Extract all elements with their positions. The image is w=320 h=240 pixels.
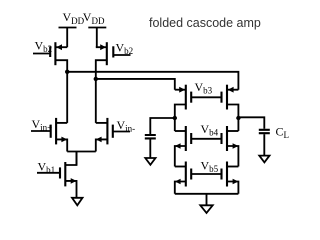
capacitor CL bbox=[259, 130, 270, 133]
capacitor C2 bbox=[145, 135, 156, 138]
svg-text:CL: CL bbox=[276, 125, 290, 141]
ground tail bbox=[72, 198, 83, 206]
VDD rail left bbox=[59, 28, 77, 48]
svg-text:folded cascode amp: folded cascode amp bbox=[149, 16, 261, 30]
svg-text:Vb5: Vb5 bbox=[201, 159, 219, 175]
svg-text:VDD: VDD bbox=[83, 10, 105, 26]
node D bbox=[236, 116, 240, 120]
node C bbox=[173, 116, 177, 120]
transistor M1 Vb2 left PMOS bbox=[50, 42, 67, 72]
transistor M2 Vb2 right PMOS bbox=[96, 42, 114, 79]
wire node A to Vb3 right source bbox=[67, 72, 238, 90]
wire node D to CL bbox=[238, 117, 264, 129]
wire gate Vb5 bbox=[191, 173, 221, 175]
transistor M6 Vb3 left PMOS bbox=[175, 85, 191, 118]
wire gate Vb1 bbox=[37, 172, 60, 174]
transistor M3 Vin+ NMOS bbox=[51, 118, 67, 152]
wire node B down to M4 drain bbox=[95, 79, 97, 123]
svg-text:Vb3: Vb3 bbox=[195, 80, 213, 96]
wire gate Vb2 left bbox=[33, 53, 50, 55]
node B bbox=[94, 77, 98, 81]
VDD rail right bbox=[88, 28, 106, 48]
wire node A down to M3 drain bbox=[66, 72, 68, 123]
transistor M8 Vb4 left NMOS bbox=[175, 126, 191, 167]
transistor M9 Vb4 right NMOS bbox=[222, 126, 239, 167]
wire gate Vin+ bbox=[31, 130, 51, 132]
svg-text:Vb2: Vb2 bbox=[35, 39, 53, 55]
transistor M10 Vb5 left NMOS bbox=[175, 162, 191, 194]
wire cap2 to ground bbox=[149, 139, 151, 157]
wire common source bbox=[67, 152, 96, 166]
transistor M7 Vb3 right PMOS bbox=[222, 85, 239, 118]
transistor M11 Vb5 right NMOS bbox=[222, 162, 239, 194]
wire node C down bbox=[174, 118, 176, 131]
wire node C to cap2 bbox=[150, 118, 175, 134]
svg-text:Vb4: Vb4 bbox=[201, 122, 219, 138]
node A bbox=[65, 70, 69, 74]
wire CL to ground bbox=[263, 134, 265, 155]
ground cascode bbox=[200, 205, 212, 213]
wire node D down bbox=[237, 118, 239, 131]
svg-text:Vb2: Vb2 bbox=[116, 41, 134, 57]
ground CL bbox=[259, 156, 269, 163]
transistor M4 Vin- NMOS bbox=[96, 118, 113, 152]
wire gate Vb3 bbox=[191, 96, 221, 98]
wire gate Vin- bbox=[113, 131, 130, 133]
transistor M5 Vb1 NMOS tail bbox=[60, 152, 77, 198]
ground cap2 bbox=[145, 158, 155, 165]
wire node B to Vb3 left source bbox=[96, 79, 175, 90]
wire bottom rail bbox=[175, 194, 239, 205]
wire gate Vb2 right bbox=[113, 54, 130, 56]
wire gate Vb4 bbox=[191, 138, 221, 140]
svg-text:VDD: VDD bbox=[63, 10, 85, 26]
